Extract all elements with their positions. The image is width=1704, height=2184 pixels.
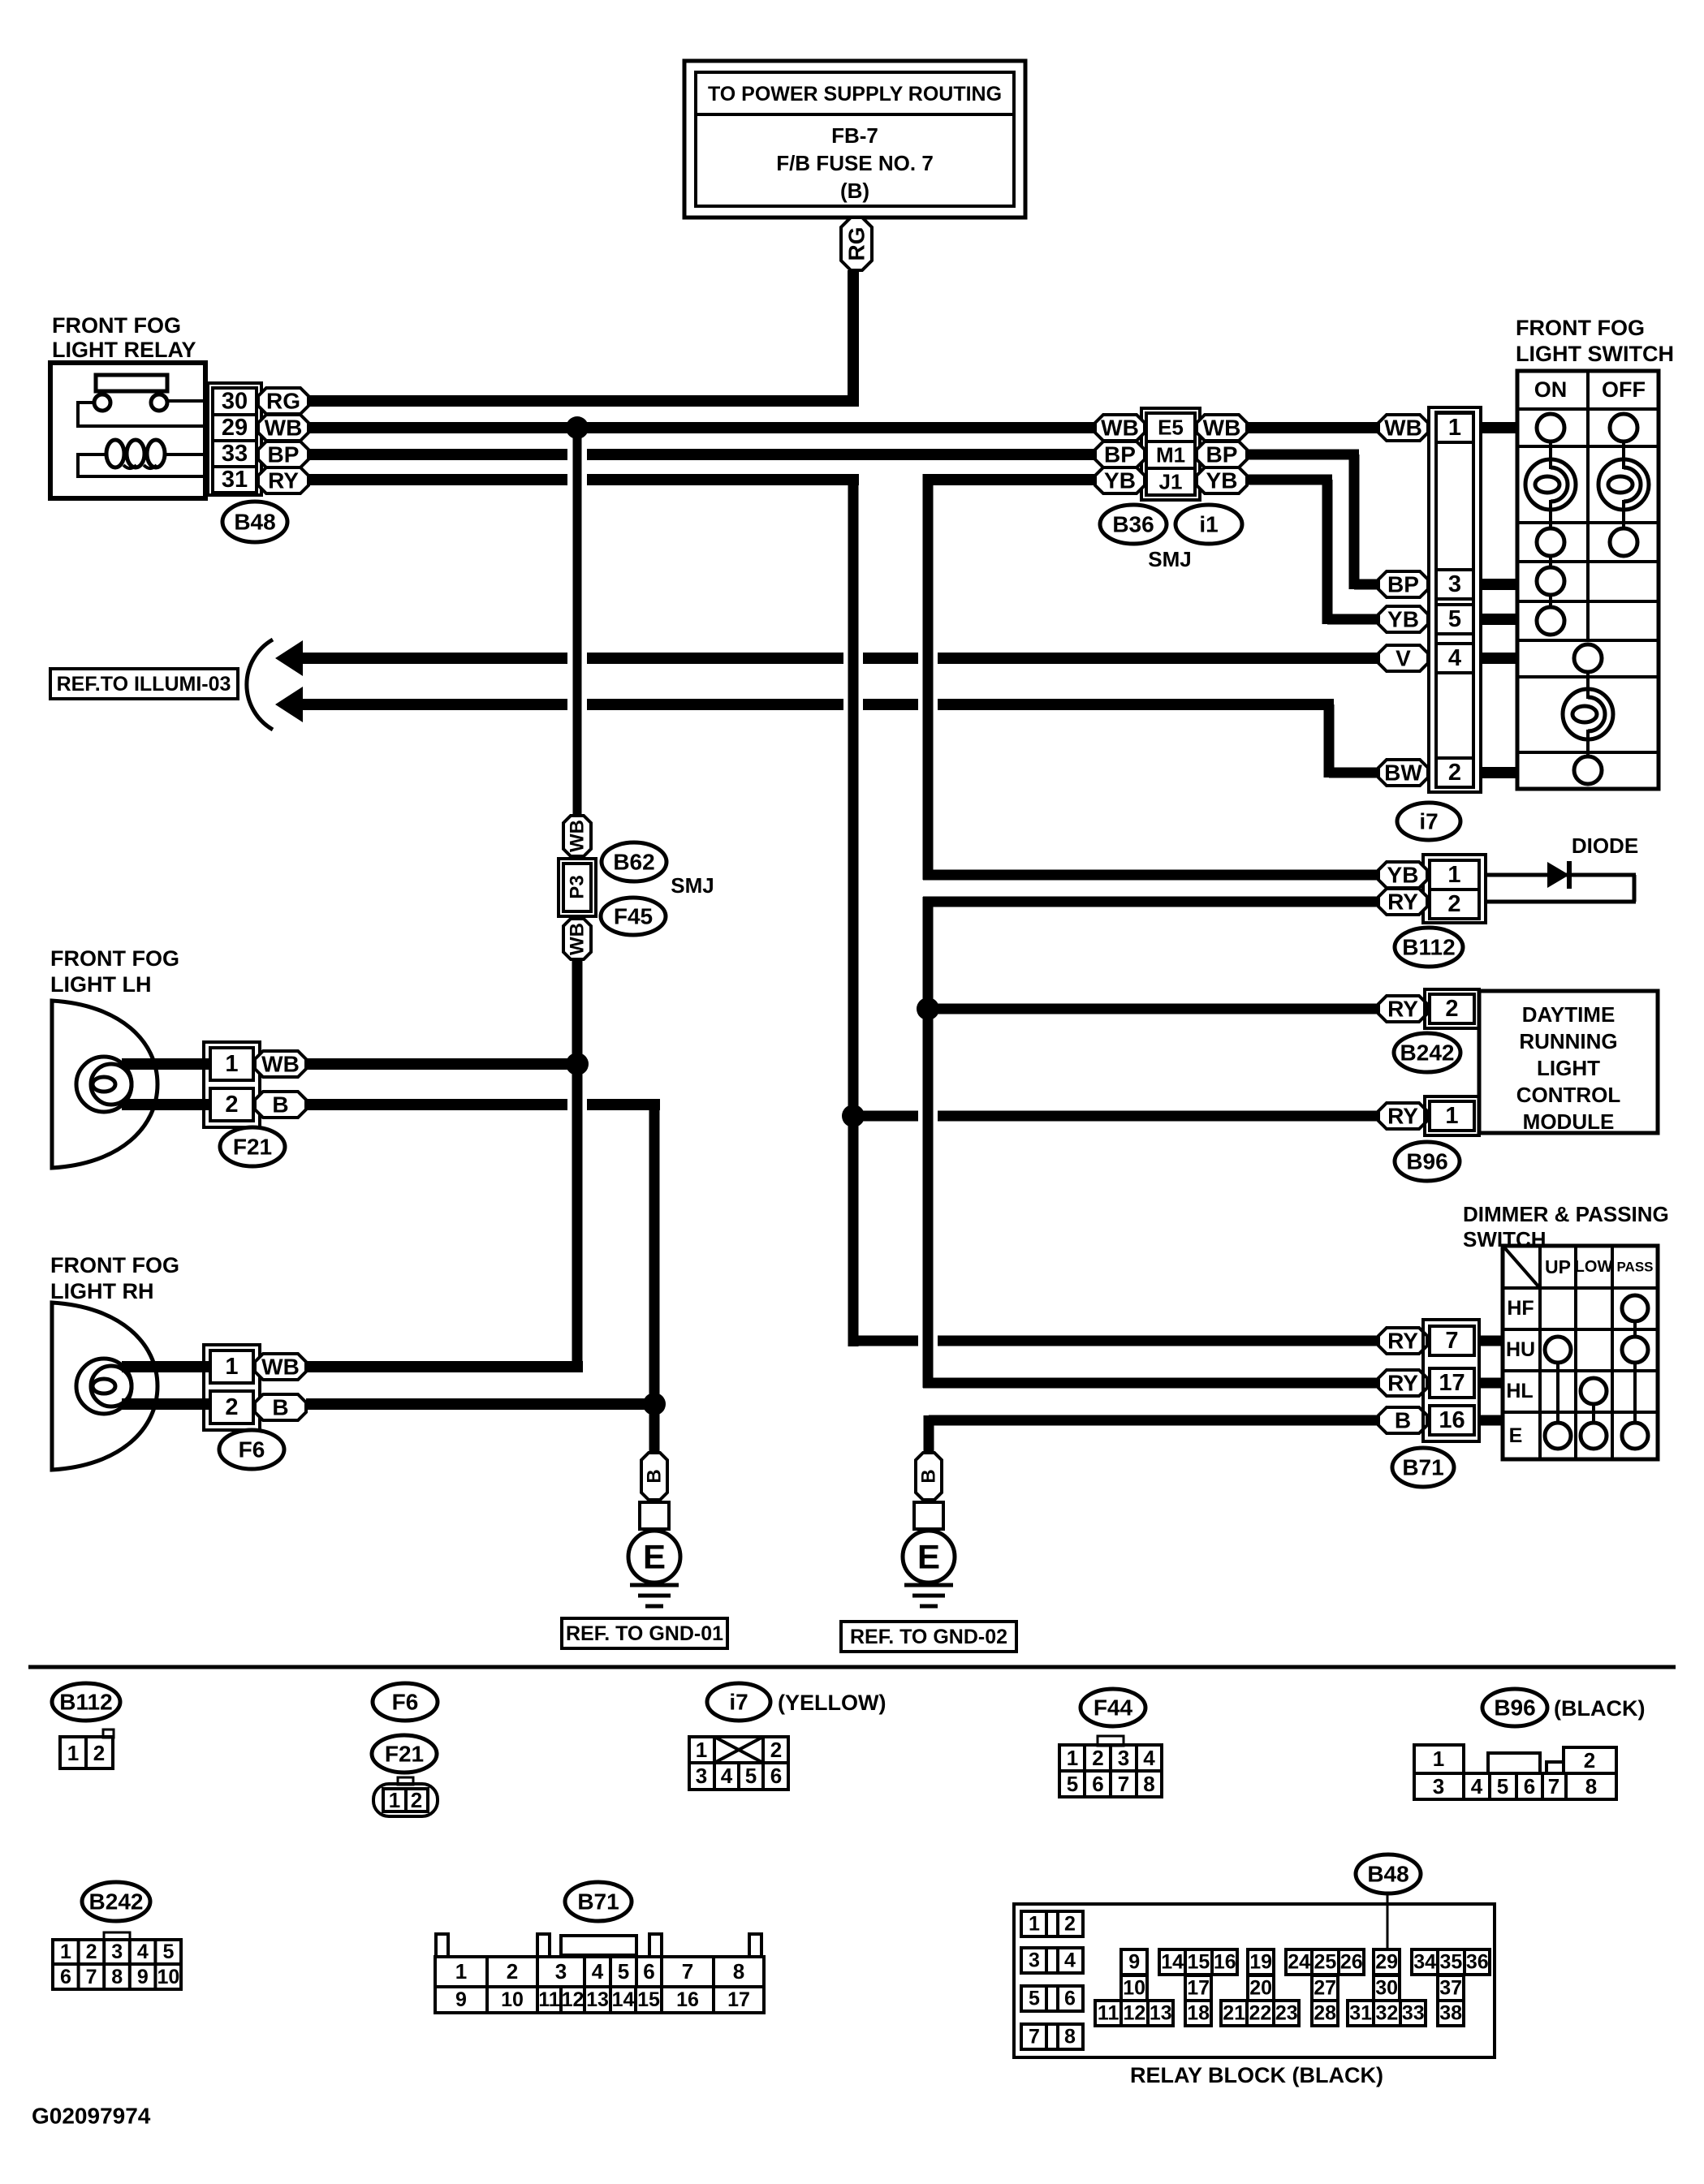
svg-text:BW: BW [1384, 760, 1422, 786]
svg-text:14: 14 [612, 1988, 635, 2011]
svg-text:PASS: PASS [1616, 1260, 1653, 1275]
svg-text:OFF: OFF [1602, 377, 1646, 402]
DRL pin 2 [1430, 994, 1474, 1023]
relay pin 31 [213, 467, 257, 493]
diode D1 symbol [1547, 861, 1569, 889]
label RELAY BLOCK (BLACK) [1130, 2063, 1383, 2087]
svg-text:M1: M1 [1156, 443, 1185, 467]
svg-text:9: 9 [1128, 1951, 1140, 1974]
wire WB vertical upper [573, 428, 582, 816]
relay contact right [151, 394, 167, 411]
svg-text:RY: RY [1387, 1371, 1418, 1396]
svg-text:B: B [644, 1469, 666, 1483]
svg-text:12: 12 [562, 1988, 585, 2011]
relay coil [78, 440, 205, 478]
label FRONT FOG LIGHT LH [50, 946, 179, 997]
diode D1 loop [1486, 875, 1636, 902]
wire label YB right of SMJ [1197, 467, 1247, 493]
wire WB vertical lower [572, 959, 583, 1372]
svg-text:V: V [1396, 646, 1411, 671]
svg-text:2: 2 [1445, 996, 1458, 1022]
svg-text:F21: F21 [233, 1135, 272, 1160]
svg-text:17: 17 [1439, 1370, 1465, 1396]
svg-text:HU: HU [1506, 1338, 1535, 1361]
svg-text:FRONT FOG: FRONT FOG [50, 946, 179, 971]
svg-text:8: 8 [1064, 2026, 1076, 2048]
svg-text:21: 21 [1223, 2002, 1245, 2025]
svg-text:B112: B112 [59, 1690, 112, 1715]
wire YB into diode net [923, 870, 1378, 881]
relay block pins 21 22 23 [1221, 2001, 1299, 2026]
wire YB vertical to diode [923, 474, 934, 880]
dimmer contact E PASS [1622, 1363, 1648, 1449]
label FRONT FOG LIGHT SWITCH [1516, 316, 1674, 366]
svg-text:2: 2 [225, 1394, 238, 1420]
svg-text:F21: F21 [385, 1742, 424, 1767]
svg-text:WB: WB [265, 416, 303, 441]
svg-text:E: E [917, 1538, 940, 1576]
arrow to ILLUMI-03 lower [275, 687, 303, 722]
ground connector label B right [916, 1453, 942, 1500]
DRL pin 2 shell [1425, 989, 1479, 1028]
svg-text:DAYTIME: DAYTIME [1522, 1002, 1616, 1027]
wire label RY at dimmer pin 7 [1378, 1328, 1427, 1354]
svg-text:E5: E5 [1158, 416, 1184, 440]
svg-text:HL: HL [1506, 1380, 1533, 1402]
wire RY to dimmer pin 17 [923, 1378, 1378, 1389]
svg-text:4: 4 [592, 1959, 604, 1984]
wire stub pin 4 to switch [1481, 653, 1517, 664]
wire label RY at diode [1378, 889, 1427, 915]
svg-text:22: 22 [1249, 2002, 1272, 2025]
wire RY to DRL pin 1 [853, 1111, 1378, 1122]
wire RY to dimmer pin 7 [853, 1336, 1378, 1346]
svg-text:B48: B48 [234, 510, 275, 535]
svg-text:WB: WB [261, 1052, 300, 1077]
wire label BP at relay [258, 442, 308, 467]
svg-text:B: B [1395, 1408, 1411, 1433]
svg-text:1: 1 [225, 1354, 238, 1380]
connector view B112 oval [52, 1683, 120, 1721]
svg-text:SMJ: SMJ [1148, 547, 1191, 571]
svg-text:6: 6 [643, 1959, 654, 1984]
svg-text:FRONT FOG: FRONT FOG [52, 313, 181, 338]
svg-text:WB: WB [567, 820, 589, 852]
svg-text:1: 1 [1448, 415, 1461, 441]
fog light switch body grid [1517, 371, 1659, 789]
wire fog LH pin 2 [122, 1099, 210, 1110]
svg-text:2: 2 [1092, 1746, 1103, 1770]
wire RY vertical to dimmer switch [848, 480, 859, 1346]
svg-text:RUNNING: RUNNING [1519, 1029, 1617, 1053]
switch contact ON pin3 [1537, 556, 1564, 595]
wire WB from SMJ to switch connector [1247, 422, 1378, 433]
ground connector label B left [641, 1453, 667, 1500]
svg-text:1: 1 [389, 1788, 400, 1812]
svg-text:36: 36 [1466, 1951, 1489, 1974]
svg-text:7: 7 [1445, 1328, 1458, 1354]
svg-text:2: 2 [1447, 891, 1460, 917]
svg-text:i7: i7 [1419, 809, 1438, 834]
svg-text:FRONT FOG: FRONT FOG [50, 1253, 179, 1277]
svg-text:7: 7 [1029, 2026, 1040, 2048]
relay block pin 19 [1248, 1949, 1274, 1975]
wire YB to pin 5 [1327, 614, 1378, 625]
connector view B112 [60, 1730, 114, 1768]
svg-text:B: B [272, 1395, 288, 1420]
SMJ connector shell [1141, 408, 1200, 500]
wire stub pin 2 to switch [1481, 767, 1517, 778]
svg-text:15: 15 [637, 1988, 660, 2011]
svg-text:2: 2 [507, 1959, 518, 1984]
i7 pin 4 [1436, 644, 1473, 673]
svg-text:E: E [1509, 1424, 1523, 1447]
dimmer row label HL [1506, 1380, 1533, 1402]
svg-text:1: 1 [225, 1051, 238, 1077]
label DIODE [1572, 834, 1638, 858]
svg-text:YB: YB [1104, 468, 1136, 493]
DRL pin 1 [1430, 1101, 1474, 1131]
svg-text:33: 33 [1402, 2002, 1425, 2025]
wire label WB left of SMJ [1095, 415, 1145, 441]
svg-text:10: 10 [501, 1988, 524, 2011]
svg-text:B96: B96 [1494, 1695, 1535, 1721]
svg-text:29: 29 [222, 415, 248, 441]
svg-text:i1: i1 [1199, 512, 1218, 537]
relay block pin 10 [1121, 1975, 1147, 2001]
svg-text:16: 16 [1439, 1407, 1465, 1433]
relay block pins 7 8 [1021, 2024, 1083, 2049]
relay block pin 28 [1312, 2001, 1338, 2026]
wire WB fog LH to junction [306, 1058, 577, 1070]
connector view B242 body [53, 1932, 181, 1989]
wire stub pin 5 to switch [1481, 614, 1517, 625]
svg-text:F44: F44 [1094, 1695, 1133, 1721]
wire pointer from B48 oval to relay block pin 29 [1387, 1893, 1389, 1949]
dimmer contact HL LOW [1581, 1378, 1607, 1404]
svg-text:24: 24 [1288, 1951, 1310, 1974]
svg-text:28: 28 [1314, 2002, 1336, 2025]
wire label WB above P3 [563, 816, 591, 856]
dimmer pin 16 [1430, 1406, 1474, 1435]
svg-text:P3: P3 [567, 875, 589, 898]
svg-text:LOW: LOW [1575, 1258, 1613, 1276]
svg-text:30: 30 [222, 389, 248, 415]
svg-text:18: 18 [1187, 2002, 1210, 2025]
svg-text:2: 2 [1064, 1913, 1076, 1936]
connector view F44 body [1059, 1736, 1162, 1797]
wire stub pin 1 to switch [1481, 422, 1517, 433]
svg-text:HF: HF [1507, 1297, 1534, 1320]
switch header ON OFF [1534, 377, 1646, 402]
wire stub dimmer pin 7 [1479, 1336, 1503, 1346]
svg-text:B62: B62 [613, 850, 654, 875]
svg-text:4: 4 [721, 1764, 733, 1788]
relay block pins 14 15 16 [1159, 1949, 1237, 1975]
relay block pins 11 12 13 [1095, 2001, 1173, 2026]
svg-text:6: 6 [1092, 1772, 1103, 1796]
svg-text:8: 8 [1143, 1772, 1154, 1796]
svg-text:2: 2 [1448, 760, 1461, 786]
label (YELLOW) [778, 1691, 886, 1715]
junction dot RY to DRL module [917, 997, 939, 1020]
svg-text:CONTROL: CONTROL [1516, 1083, 1621, 1107]
svg-text:F6: F6 [392, 1690, 419, 1715]
svg-text:MODULE: MODULE [1523, 1109, 1615, 1134]
svg-text:1: 1 [1029, 1913, 1040, 1936]
wire B vertical to ground [649, 1105, 660, 1453]
svg-text:25: 25 [1314, 1951, 1337, 1974]
relay armature bar [96, 375, 167, 391]
diode B112 oval [1395, 928, 1463, 967]
svg-text:3: 3 [696, 1764, 707, 1788]
svg-text:ON: ON [1534, 377, 1568, 402]
connector view B96 oval [1482, 1689, 1547, 1726]
svg-text:FB-7: FB-7 [831, 123, 878, 148]
svg-text:SMJ: SMJ [671, 873, 714, 898]
svg-text:REF. TO GND-01: REF. TO GND-01 [566, 1622, 723, 1645]
wire V to fog light switch pin 4 [297, 653, 1378, 664]
fog RH F6 oval [219, 1430, 284, 1469]
wire label YB at switch pin 5 [1378, 606, 1428, 632]
svg-text:1: 1 [1067, 1746, 1078, 1770]
svg-text:6: 6 [770, 1764, 782, 1788]
svg-text:3: 3 [555, 1959, 567, 1984]
svg-text:15: 15 [1188, 1951, 1210, 1974]
wire WB fog RH to vertical [306, 1361, 583, 1372]
svg-text:8: 8 [111, 1966, 123, 1988]
switch lamp lower [1563, 672, 1613, 756]
svg-text:1: 1 [696, 1738, 707, 1762]
switch contact pin4 [1574, 644, 1602, 672]
svg-text:WB: WB [1384, 416, 1422, 441]
wire label YB left of SMJ [1095, 467, 1145, 493]
svg-text:5: 5 [162, 1941, 174, 1963]
relay block pin 37 [1438, 1975, 1464, 2001]
svg-text:2: 2 [86, 1941, 97, 1963]
junction dot B at fog light RH [643, 1393, 666, 1415]
switch contact ON pin5 [1537, 595, 1564, 635]
svg-text:13: 13 [586, 1988, 609, 2011]
wire label RY at DRL pin 2 [1378, 996, 1427, 1022]
dimmer switch body grid [1503, 1246, 1658, 1459]
diode pin 2 [1430, 890, 1479, 919]
fog light LH housing [52, 1001, 157, 1168]
switch contact ON row3 [1537, 528, 1564, 556]
ground terminal box left [640, 1502, 669, 1529]
relay block pin 9 [1121, 1949, 1147, 1975]
svg-text:3: 3 [1029, 1949, 1040, 1972]
svg-text:37: 37 [1439, 1977, 1462, 2000]
relay contact wiring to pins 30 and 29 [78, 401, 205, 428]
wire BP vertical [1349, 454, 1360, 589]
svg-text:10: 10 [1123, 1977, 1145, 2000]
wire label RG at relay [258, 388, 308, 414]
svg-text:B: B [918, 1469, 940, 1483]
switch contact OFF row3 [1610, 528, 1637, 556]
svg-text:LIGHT SWITCH: LIGHT SWITCH [1516, 342, 1674, 366]
svg-text:B242: B242 [89, 1889, 144, 1915]
svg-text:BP: BP [1206, 442, 1238, 467]
ground terminal box right [914, 1502, 943, 1529]
relay connector B48 shell [208, 383, 261, 495]
svg-text:23: 23 [1275, 2002, 1298, 2025]
wire label YB at diode [1378, 862, 1427, 888]
dimmer pin 7 [1430, 1326, 1474, 1355]
relay B48 box [50, 363, 205, 498]
svg-text:5: 5 [1029, 1988, 1040, 2010]
wire RY from relay [307, 474, 859, 485]
svg-text:B112: B112 [1402, 935, 1455, 960]
wire stub pin 3 to switch [1481, 579, 1517, 590]
wire BW vertical [1324, 704, 1335, 778]
svg-text:35: 35 [1440, 1951, 1463, 1974]
relay block pins 31 32 33 [1348, 2001, 1426, 2026]
svg-text:3: 3 [1433, 1774, 1444, 1798]
wire YB from SMJ J1 to diode net [928, 474, 1095, 485]
dimmer contact HF PASS [1622, 1295, 1648, 1321]
svg-text:1: 1 [1447, 862, 1460, 888]
svg-text:E: E [643, 1538, 666, 1576]
relay pin 29 [213, 415, 257, 441]
svg-text:WB: WB [261, 1355, 300, 1380]
relay block pins 3 4 [1021, 1948, 1083, 1973]
DRL module box [1479, 991, 1658, 1134]
connector view B71 oval [565, 1882, 632, 1921]
reference box REF. TO GND-01 [562, 1618, 727, 1648]
arrow to ILLUMI-03 upper [275, 640, 303, 676]
svg-text:26: 26 [1340, 1951, 1363, 1974]
SMJ P3 cell [563, 864, 591, 911]
wire label WB at relay [258, 415, 308, 441]
connector view F6 oval [373, 1683, 438, 1721]
svg-text:5: 5 [745, 1764, 757, 1788]
svg-text:9: 9 [137, 1966, 149, 1988]
svg-text:1: 1 [67, 1741, 79, 1765]
wire B vertical to ground right [924, 1415, 934, 1453]
relay block pins 34 35 36 [1412, 1949, 1490, 1975]
label G02097974 [32, 2104, 151, 2129]
wire label RY at dimmer pin 17 [1378, 1370, 1427, 1396]
svg-text:(YELLOW): (YELLOW) [778, 1691, 886, 1715]
svg-text:REF. TO GND-02: REF. TO GND-02 [850, 1626, 1007, 1648]
ground E symbol right [903, 1531, 955, 1606]
wire RG connector label at power supply [841, 218, 872, 270]
svg-text:J1: J1 [1159, 470, 1183, 494]
svg-text:11: 11 [538, 1988, 560, 2011]
wire BP from SMJ [1247, 450, 1359, 460]
svg-text:6: 6 [1064, 1988, 1076, 2010]
svg-text:8: 8 [1585, 1774, 1597, 1798]
label FRONT FOG LIGHT RH [50, 1253, 179, 1303]
relay block pins 24 25 26 [1286, 1949, 1364, 1975]
svg-text:B48: B48 [1367, 1862, 1408, 1887]
SMJ B62 oval [602, 842, 667, 881]
svg-text:31: 31 [222, 467, 248, 493]
fog LH F21 oval [220, 1127, 285, 1166]
svg-text:16: 16 [1214, 1951, 1236, 1974]
svg-text:F6: F6 [239, 1437, 265, 1462]
relay block pins 1 2 [1021, 1911, 1083, 1936]
svg-text:8: 8 [733, 1959, 744, 1984]
svg-text:B71: B71 [577, 1889, 619, 1915]
junction dot RY to B96 [842, 1105, 865, 1127]
svg-text:RELAY BLOCK (BLACK): RELAY BLOCK (BLACK) [1130, 2063, 1383, 2087]
i7 pin 3 [1436, 570, 1473, 599]
svg-text:5: 5 [1067, 1772, 1078, 1796]
wire RG vertical from power supply [848, 270, 859, 407]
SMJ pin J1 [1146, 468, 1195, 495]
i7 pin 5 [1436, 605, 1473, 634]
svg-text:3: 3 [1448, 571, 1461, 597]
connector view B48 oval [1356, 1854, 1421, 1893]
connector view F21 body [373, 1777, 438, 1816]
wire BP to pin 3 [1354, 579, 1378, 590]
arc bracket for illumination reference [247, 640, 273, 730]
diode pin 1 [1430, 860, 1479, 890]
svg-text:RY: RY [1387, 890, 1418, 915]
relay block pin 29 [1374, 1949, 1400, 1975]
svg-text:RG: RG [844, 227, 869, 261]
fog LH pin 1 [210, 1048, 253, 1080]
svg-text:20: 20 [1249, 1977, 1272, 2000]
svg-text:12: 12 [1124, 2002, 1146, 2025]
dimmer B71 oval [1392, 1448, 1454, 1487]
svg-text:B36: B36 [1112, 512, 1154, 537]
wire label B at dimmer pin 16 [1378, 1407, 1427, 1433]
dimmer pin 17 [1430, 1368, 1474, 1398]
SMJ P3 shell [559, 859, 596, 916]
relay block outline [1014, 1904, 1495, 2057]
svg-text:3: 3 [1118, 1746, 1129, 1770]
dimmer contact E UP [1545, 1363, 1571, 1449]
relay block pins 5 6 [1021, 1986, 1083, 2011]
svg-text:YB: YB [1206, 468, 1238, 493]
relay B48 oval [222, 502, 287, 542]
svg-text:13: 13 [1150, 2002, 1172, 2025]
dimmer row label E [1509, 1424, 1523, 1447]
reference box REF.TO ILLUMI-03 [50, 669, 238, 699]
ground E symbol left [628, 1531, 680, 1606]
svg-text:2: 2 [93, 1741, 105, 1765]
relay block pin 30 [1374, 1975, 1400, 2001]
wire label BP right of SMJ [1197, 442, 1247, 467]
svg-text:WB: WB [1101, 416, 1139, 441]
svg-text:F45: F45 [614, 904, 653, 929]
relay block pin 27 [1312, 1975, 1338, 2001]
svg-text:4: 4 [1471, 1774, 1483, 1798]
svg-text:30: 30 [1375, 1977, 1398, 2000]
wire stub dimmer pin 17 [1479, 1378, 1503, 1389]
wire label WB at fog LH [255, 1051, 306, 1077]
svg-text:4: 4 [1143, 1746, 1155, 1770]
wire label V at switch pin 4 [1378, 645, 1428, 671]
svg-text:WB: WB [567, 923, 589, 955]
svg-text:RY: RY [1387, 1104, 1418, 1129]
svg-text:RY: RY [1387, 1329, 1418, 1354]
wire BW to pin 2 [1329, 768, 1378, 778]
switch lamp OFF [1598, 442, 1649, 528]
relay pin 33 [213, 441, 257, 467]
wire label BP left of SMJ [1095, 442, 1145, 467]
fog LH pin 2 [210, 1088, 253, 1121]
connector view B242 oval [82, 1882, 150, 1921]
svg-text:2: 2 [770, 1738, 782, 1762]
connector view B96 body [1414, 1745, 1616, 1799]
svg-text:BP: BP [268, 442, 300, 467]
dimmer header UP LOW PASS [1545, 1256, 1654, 1277]
separator line [28, 1665, 1676, 1669]
